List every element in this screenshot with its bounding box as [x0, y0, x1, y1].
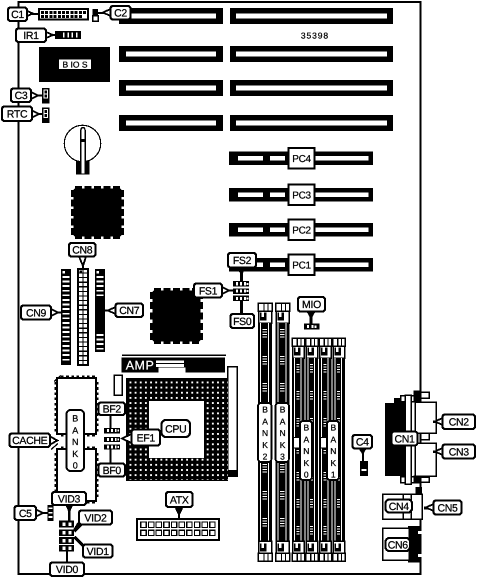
svg-text:EF1: EF1: [137, 432, 156, 444]
PCI slot PC2: [229, 220, 373, 241]
callout C4: [353, 435, 373, 461]
callout CN5: [424, 501, 462, 515]
callout FS0: [231, 301, 255, 328]
callout CN7: [104, 304, 143, 318]
callout VID0: [50, 551, 84, 576]
SIMM slot BANK2: [258, 303, 272, 561]
ISA slot row 3 right segment: [230, 80, 393, 96]
svg-text:N: N: [303, 446, 309, 456]
callout BF0: [99, 450, 126, 477]
svg-text:C4: C4: [356, 437, 369, 449]
PCI slot PC4: [229, 148, 373, 169]
svg-text:B: B: [303, 423, 309, 433]
callout CN1: [392, 432, 418, 446]
connector CN9 header: [61, 269, 71, 365]
svg-text:A: A: [262, 416, 268, 426]
svg-text:K: K: [330, 458, 336, 468]
svg-text:CN1: CN1: [394, 433, 415, 445]
svg-text:1: 1: [331, 470, 336, 480]
jumper C3: [42, 88, 50, 104]
svg-text:2: 2: [263, 452, 268, 462]
svg-text:35398: 35398: [301, 31, 329, 41]
ISA slot row 1 right segment: [230, 8, 393, 24]
PCI slot PC3: [229, 185, 373, 206]
svg-text:BF0: BF0: [103, 465, 122, 477]
DIMM slot 3: [319, 338, 332, 561]
callout MIO: [298, 297, 325, 324]
svg-text:C1: C1: [11, 9, 24, 21]
svg-text:PC2: PC2: [292, 226, 311, 237]
callout IR1: [16, 29, 56, 43]
callout C2: [98, 6, 131, 20]
label BANK1 dimm: [327, 421, 339, 480]
svg-text:A: A: [330, 434, 336, 444]
svg-text:FS1: FS1: [199, 285, 218, 297]
DIMM slot 1: [292, 338, 305, 561]
svg-text:VID3: VID3: [58, 493, 81, 505]
svg-text:3: 3: [280, 452, 285, 462]
svg-text:FS2: FS2: [233, 255, 252, 267]
DIMM slot 4: [333, 338, 346, 561]
svg-text:CACHE: CACHE: [12, 435, 48, 447]
svg-text:N: N: [279, 428, 285, 438]
label BANK3: [276, 403, 290, 462]
svg-text:CPU: CPU: [165, 423, 186, 435]
callout ATX: [166, 492, 193, 519]
svg-text:ATX: ATX: [170, 494, 189, 506]
svg-text:FS0: FS0: [233, 316, 252, 328]
BANK0 label side tab: [294, 438, 301, 449]
callout RTC: [2, 107, 42, 122]
svg-text:CN7: CN7: [119, 305, 140, 317]
svg-text:AMP: AMP: [126, 359, 155, 373]
connector C5 header: [48, 505, 54, 521]
ISA slot row 3 left segment: [119, 80, 223, 96]
svg-text:B: B: [262, 405, 268, 415]
svg-text:PC1: PC1: [292, 261, 311, 272]
callout CN8: [69, 243, 96, 269]
cache chip U4: [55, 447, 99, 504]
label CN4: [386, 500, 413, 513]
svg-text:IR1: IR1: [23, 30, 39, 42]
callout CN3: [433, 445, 475, 459]
label CN6: [386, 538, 411, 551]
jumper RTC: [42, 108, 50, 124]
svg-text:K: K: [262, 440, 268, 450]
callout CN2: [433, 415, 475, 430]
PCI slot PC1: [229, 255, 373, 276]
DIMM slot 2: [306, 338, 319, 561]
svg-text:C2: C2: [114, 8, 127, 20]
svg-text:CN2: CN2: [449, 417, 470, 429]
label BANK0 cache: [67, 410, 85, 471]
svg-text:CN6: CN6: [388, 539, 409, 551]
connector CN6: [383, 526, 423, 563]
label BANK2: [258, 403, 272, 462]
ISA slot row 4 left segment: [119, 115, 223, 131]
ISA slot row 2 left segment: [119, 46, 223, 62]
svg-text:PC4: PC4: [292, 154, 311, 165]
callout BF2: [99, 403, 126, 429]
ISA slot row 4 right segment: [230, 115, 393, 131]
cache chip U3 pin1 mark: [54, 376, 61, 382]
callout CPU: [162, 420, 191, 437]
svg-text:N: N: [72, 437, 79, 447]
svg-text:CN9: CN9: [26, 307, 47, 319]
callout C1: [8, 8, 39, 22]
svg-text:CN8: CN8: [72, 245, 93, 257]
CPU socket body: [126, 378, 228, 481]
cache chip U4 pin1 mark: [51, 444, 58, 450]
callout C5: [15, 506, 48, 520]
svg-text:B: B: [280, 405, 286, 415]
callout FS1: [194, 284, 233, 298]
capacitor near socket: [114, 375, 122, 395]
jumper block FS rows: [233, 281, 249, 301]
svg-text:B: B: [72, 414, 78, 424]
svg-text:PC3: PC3: [292, 191, 311, 202]
SIMM slot BANK3: [276, 303, 290, 561]
svg-text:N: N: [330, 446, 336, 456]
jumper block BF rows: [104, 428, 120, 450]
callout VID2: [74, 511, 113, 533]
svg-text:VID2: VID2: [84, 512, 107, 524]
svg-text:RTC: RTC: [7, 109, 28, 121]
connector CN8 header: [78, 269, 88, 365]
svg-text:0: 0: [73, 461, 78, 471]
QFP chip U2: [150, 288, 203, 344]
svg-text:A: A: [72, 425, 78, 435]
jumper block VID rows: [59, 521, 74, 552]
svg-text:C5: C5: [19, 508, 32, 520]
BIOS chip: [39, 47, 110, 82]
battery: [64, 125, 100, 174]
QFP chip U1: [71, 186, 124, 239]
svg-text:K: K: [280, 440, 286, 450]
svg-text:K: K: [72, 449, 78, 459]
callout VID1: [74, 536, 113, 558]
ISA slot row 1 left segment: [119, 8, 223, 24]
svg-text:CN4: CN4: [389, 501, 410, 513]
CPU socket AMP retention bar: [122, 355, 227, 373]
capacitor C4: [360, 461, 368, 476]
label BANK0 dimm: [300, 421, 312, 480]
callout CACHE: [10, 434, 58, 448]
svg-text:VID0: VID0: [56, 564, 79, 576]
svg-text:CN5: CN5: [437, 502, 458, 514]
cache chip U3: [55, 376, 99, 437]
BANK1 label side tab: [321, 438, 328, 449]
callout C3: [11, 89, 42, 103]
svg-text:A: A: [280, 416, 286, 426]
svg-text:K: K: [303, 458, 309, 468]
capacitor C2 component: [93, 9, 99, 21]
svg-text:VID1: VID1: [87, 546, 110, 558]
connector IR1 header: [55, 31, 81, 39]
svg-text:C3: C3: [15, 90, 28, 102]
callout VID3: [52, 492, 86, 521]
connector CN1 stack: [385, 391, 436, 485]
connector CN4: [383, 487, 423, 519]
svg-text:CN3: CN3: [449, 446, 470, 458]
jumper MIO: [304, 324, 320, 330]
svg-text:BF2: BF2: [103, 404, 122, 416]
ATX power connector: [137, 519, 219, 540]
callout CN9: [21, 306, 62, 320]
connector CN7 header: [95, 269, 105, 352]
svg-text:B IO S: B IO S: [62, 60, 87, 70]
callout FS2: [228, 253, 256, 281]
svg-text:N: N: [262, 428, 268, 438]
CPU socket lever bar: [228, 367, 239, 478]
svg-text:B: B: [330, 423, 336, 433]
ISA slot row 2 right segment: [230, 46, 393, 62]
callout EF1: [122, 430, 160, 446]
svg-text:A: A: [303, 434, 309, 444]
svg-text:MIO: MIO: [302, 299, 321, 311]
connector C1 pin header: [39, 9, 88, 20]
svg-text:0: 0: [304, 470, 309, 480]
